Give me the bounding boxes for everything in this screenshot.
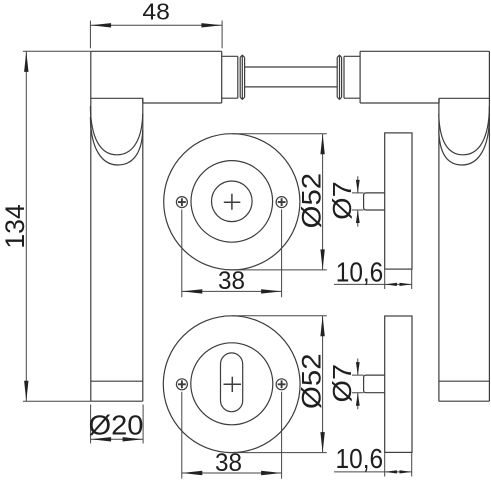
- svg-text:38: 38: [218, 267, 245, 295]
- svg-text:10,6: 10,6: [336, 257, 384, 288]
- svg-text:38: 38: [215, 449, 242, 477]
- svg-text:10,6: 10,6: [336, 443, 384, 474]
- svg-text:Ø7: Ø7: [327, 181, 357, 220]
- svg-text:Ø52: Ø52: [297, 353, 327, 409]
- svg-text:Ø52: Ø52: [297, 173, 327, 229]
- svg-text:134: 134: [0, 204, 30, 249]
- svg-text:48: 48: [142, 0, 170, 24]
- svg-text:Ø20: Ø20: [89, 409, 144, 440]
- svg-text:Ø7: Ø7: [327, 364, 357, 403]
